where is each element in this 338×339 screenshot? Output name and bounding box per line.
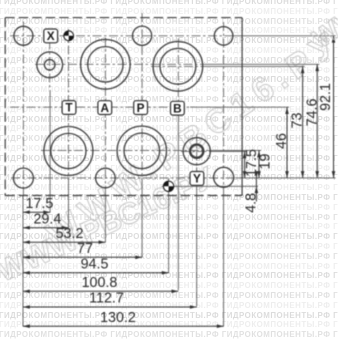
label P [134,101,148,115]
extension line 77 [141,178,143,258]
plate outline bottom edge [5,195,242,197]
centerline datum2 vertical / extension 94.5 [168,179,170,274]
centerline right holes column [223,22,225,190]
datum symbol top [64,31,74,41]
svg-text:Y: Y [193,172,201,186]
port A circles [81,40,131,90]
svg-text:B: B [173,101,182,115]
watermark diagonal fragment top-right [307,0,338,54]
plate outline left edge [4,18,6,196]
centerline port A vertical [104,38,106,191]
datum symbol bottom [163,181,173,191]
svg-text:92.1: 92.1 [318,83,334,111]
dim 46 [286,107,288,178]
dim 100.8 [23,290,178,292]
extension line 17.5 [49,90,51,212]
svg-text:77: 77 [77,241,93,257]
label A [98,101,112,115]
svg-text:112.7: 112.7 [89,291,124,307]
centerline top holes axis / extension 92.1 [10,35,233,37]
svg-text:19: 19 [258,154,274,170]
dim 17.5 [23,211,50,213]
centerline port B vertical [177,39,179,101]
centerline port P vertical [141,13,143,178]
extension line 100.8 [177,100,179,290]
extension line 130.2 [223,190,225,326]
hole top-right [214,27,233,46]
svg-text:130.2: 130.2 [100,310,136,326]
port T circles [44,127,93,176]
label T [62,101,76,115]
svg-text:WWW.РВС16.РУ: WWW.РВС16.РУ [40,23,338,254]
centerline port Y vertical [196,135,198,171]
dim 94.5 [23,272,169,274]
centerline Y axis / extension 17.5 [181,150,211,152]
hole top-left [14,26,33,45]
dim 74.6 [316,64,318,178]
dim 17.5 [244,151,246,178]
port Y circles [183,138,210,165]
port B circles [153,42,203,92]
svg-text:94.5: 94.5 [81,257,109,273]
centerline T P axis / extension 19 [41,149,215,151]
extension line 112.7 [196,170,198,306]
label B [171,101,185,115]
centerline vertical left holes column [22,22,24,197]
plate outline top edge [5,17,242,19]
svg-text:A: A [101,101,110,115]
svg-text:X: X [47,29,55,43]
hole bottom-middle [96,168,116,188]
watermark diagonal WWW.RVS16.RU [0,161,219,288]
watermark diagonal second copy [40,23,338,254]
svg-text:100.8: 100.8 [82,275,118,291]
dim 92.1 [333,36,335,178]
hole top-middle [133,26,152,45]
extension line 29.4 [68,178,70,228]
label Y [190,172,204,186]
extension line 53.2 [104,190,106,242]
svg-text:4.8: 4.8 [243,193,259,213]
svg-text:T: T [65,101,73,115]
hole bottom-right [214,167,234,187]
hole bottom-left [13,168,33,188]
svg-text:53.2: 53.2 [56,226,84,242]
centerline port X vertical [49,41,51,91]
port X circles [37,52,63,78]
centerline bottom holes axis / right dims baseline [11,177,235,179]
plate outline right edge [241,18,243,196]
dim 130.2 [23,325,224,327]
port P circles [117,126,166,175]
dim 112.7 [23,306,197,308]
dim 19 [258,150,260,178]
centerline X A axis / extension 74.6 [35,63,205,65]
extension line left reference [22,196,24,327]
svg-text:17.5: 17.5 [25,196,53,212]
dim 29.4 [23,227,69,229]
centerline pin row / extension 46 [10,106,190,108]
dim 77 [23,256,142,258]
svg-text:46: 46 [274,133,290,149]
centerline B axis / extension 73 [151,65,205,67]
label X [44,29,58,43]
dim 4.8 [255,178,257,202]
svg-text:P: P [137,101,145,115]
dim 73 [302,66,304,177]
centerline datum2 axis / extension 4.8 [162,185,259,187]
centerline port T vertical [68,29,70,178]
dim 53.2 [23,241,105,243]
svg-text:73: 73 [290,113,306,129]
